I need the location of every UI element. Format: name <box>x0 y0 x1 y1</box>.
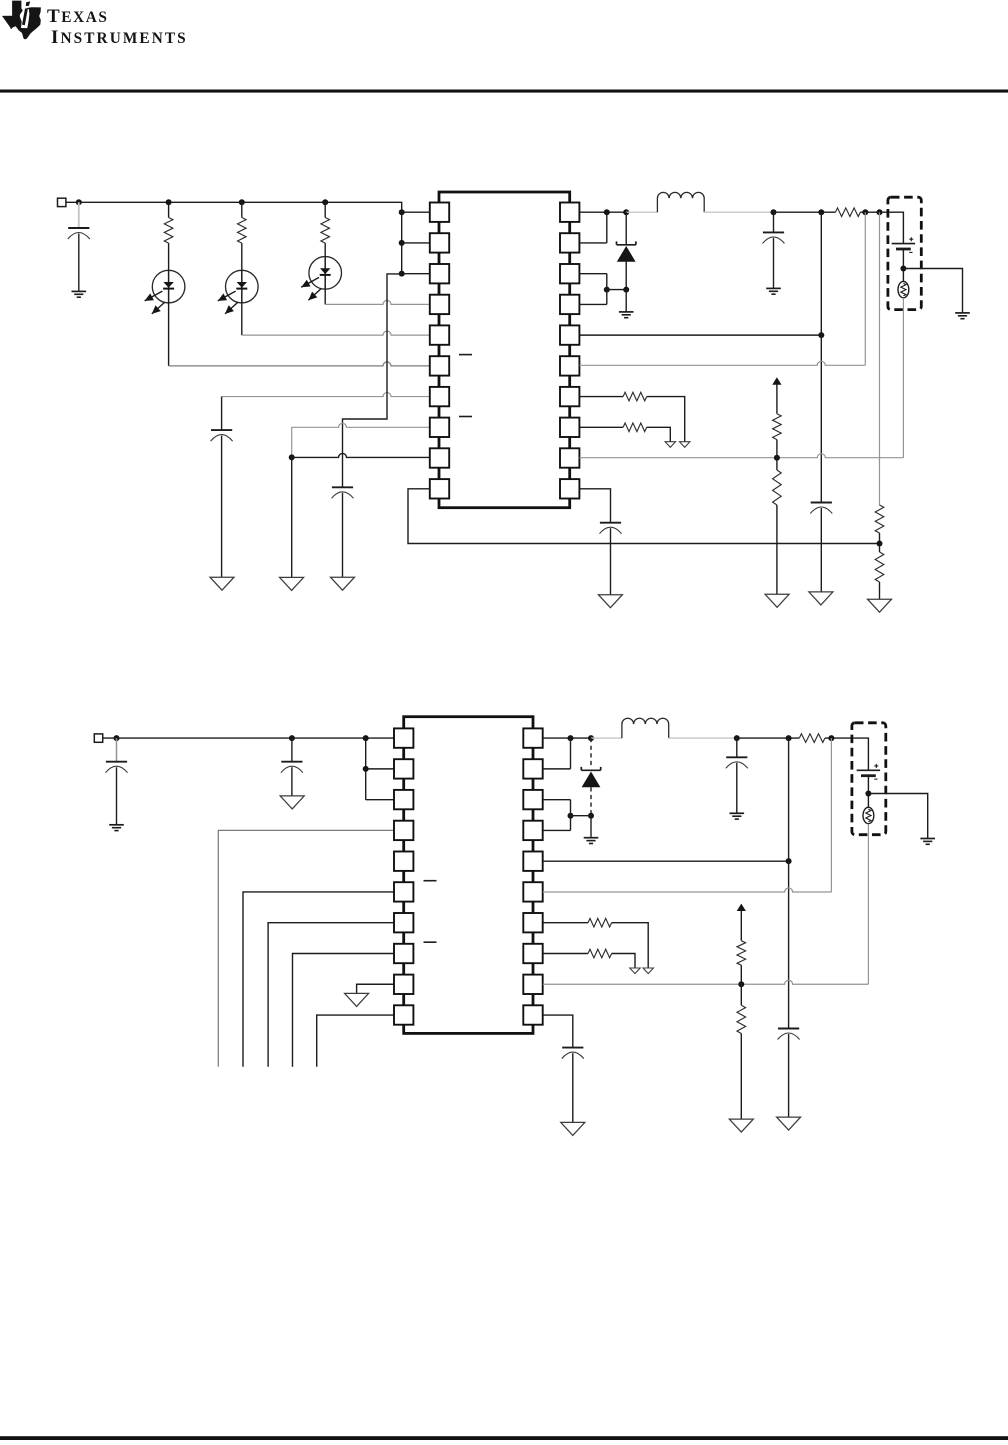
ground arrow pins 8-9 <box>280 577 304 590</box>
resistor R6 <box>623 423 647 432</box>
resistor R9 pull-down <box>773 470 782 505</box>
capacitor C3 <box>211 429 232 431</box>
supply arrow TS pull-up (U2) <box>737 904 746 911</box>
junction OUT / C5 <box>771 209 777 215</box>
wire C12 to ground <box>572 1053 574 1122</box>
resistor R10 FB top <box>875 505 884 533</box>
capacitor C11 <box>778 1028 799 1030</box>
wire node to pin 9 <box>292 453 430 457</box>
ground battery (U2) <box>920 838 935 840</box>
wire LED D2 to pin 5 <box>242 331 430 335</box>
junction VIN / C1 <box>76 199 82 205</box>
junction VIN / R2 <box>239 199 245 205</box>
capacitor C6 <box>811 502 832 504</box>
wire OUT to R10 <box>879 212 881 505</box>
capacitor C10 output <box>726 756 747 758</box>
junction sense / C11 (U2) <box>786 858 792 864</box>
battery cell BT1 <box>892 243 915 245</box>
junction bus pin1 <box>399 209 405 215</box>
wire arrow to R8 <box>776 385 778 414</box>
ground C5 <box>766 287 781 289</box>
wire bus to pin 1 <box>402 211 430 213</box>
ground battery <box>955 312 970 314</box>
ground arrow pin 9 (U2) <box>345 993 369 1006</box>
junction OUT / C10 (U2) <box>734 735 740 741</box>
ground arrow C3 <box>210 577 234 590</box>
wire VIN to C1 <box>78 202 80 228</box>
ground arrow C6 <box>809 592 833 605</box>
resistor R2 <box>238 218 247 244</box>
wire sense to battery <box>860 212 903 243</box>
resistor R15 pull-up <box>737 941 746 966</box>
wire VIN to C8 <box>116 738 118 761</box>
wire pins 18-17 to D5 anode <box>543 800 571 831</box>
ground arrow C4 <box>331 577 355 590</box>
wire R14 to ground arrow <box>612 953 635 968</box>
wire D5 anode to ground <box>590 816 592 838</box>
IC U2 right pins 11-20 <box>523 728 542 747</box>
junction sense / pin 15 <box>862 209 868 215</box>
wire OUT rail <box>774 211 836 213</box>
wire OUT rail (U2) <box>737 737 800 739</box>
wire C8 to ground <box>116 767 118 824</box>
ground C1 <box>72 290 87 292</box>
wire bus to pin 3 <box>402 273 430 275</box>
wire sense to battery (U2) <box>825 738 869 770</box>
wire pin 15 vertical (U2) <box>830 738 832 892</box>
wire R3 to LED D3 <box>324 243 326 257</box>
wire L2 to C10 <box>669 737 737 739</box>
IC U2 body (bottom circuit) <box>404 717 533 1034</box>
junction SW / D5 (U2) <box>588 735 594 741</box>
IC U2 left pins 1-10 <box>394 728 413 747</box>
ground arrow R13 <box>643 968 653 974</box>
IC U1 right pins 11-20 <box>560 203 579 222</box>
wire pin 16 sense <box>579 334 821 336</box>
wire sense vertical to C6 <box>820 335 822 502</box>
input terminal VIN (bottom circuit) <box>94 734 102 742</box>
junction D5 anode (U2) <box>588 813 594 819</box>
wire pin 6 stub (U2) <box>243 892 394 1067</box>
wire pin 12 TS line <box>579 454 903 458</box>
wire D5 anode dashed <box>590 787 592 815</box>
ground C10 <box>730 812 745 814</box>
wire pin 14 (U2) <box>543 922 588 924</box>
wire pin 11 to C12 <box>543 1015 573 1047</box>
capacitor C8 input <box>106 761 127 763</box>
junction D4 anode <box>623 287 629 293</box>
junction D5 / pin 18 (U2) <box>568 813 574 819</box>
resistor R16 pull-down <box>737 1005 746 1033</box>
wire pin 11 to C7 <box>579 489 610 523</box>
wire battery negative to ground <box>903 269 962 313</box>
junction VIN / R3 <box>322 199 328 205</box>
resistor R5 <box>623 392 647 401</box>
junction sense / C6 <box>818 332 824 338</box>
IC U2 pin 6 overbar <box>424 880 437 882</box>
battery pack dashed box (U2) <box>852 723 886 835</box>
IC U1 pin 6 overbar <box>459 354 472 356</box>
IC U1 pin 8 overbar <box>459 416 472 418</box>
wire pin 8 to node <box>292 423 430 457</box>
wire bus to pin 1 (U2) <box>366 737 394 739</box>
junction battery negative (U2) <box>865 791 871 797</box>
wire VIN to R2 <box>241 202 243 217</box>
wire R11 to ground <box>879 582 881 599</box>
wire D5 anode link <box>571 815 592 817</box>
junction TS divider <box>774 455 780 461</box>
junction D4 / pin 18 <box>604 287 610 293</box>
wire R15 to R16 <box>740 965 742 1005</box>
wire node to ground <box>291 457 293 577</box>
wire pin 8 stub (U2) <box>293 953 394 1066</box>
wire sense vertical to C11 <box>788 861 790 1028</box>
resistor R4 sense <box>835 208 860 217</box>
resistor R14 <box>588 949 612 958</box>
LED D1 <box>152 270 185 303</box>
wire C9 to ground arrow <box>291 767 293 796</box>
ground arrow TS divider <box>765 594 789 607</box>
resistor R3 <box>321 218 330 244</box>
junction sense / pin 15 (U2) <box>828 735 834 741</box>
junction pins 8-9 <box>289 454 295 460</box>
IC U1 left pins 1-10 <box>430 203 449 222</box>
wire C3 top <box>221 397 223 430</box>
LED D2 <box>226 270 259 303</box>
capacitor C7 <box>600 522 621 524</box>
wire R13 to ground arrow <box>612 923 649 968</box>
wire C10 to ground <box>736 763 738 813</box>
wire pin 7 to C3 <box>222 393 430 397</box>
wire VIN rail bottom circuit <box>103 738 366 800</box>
input terminal VIN (top circuit) <box>58 198 66 206</box>
wire SW to pin 19 vertical (U2) <box>570 738 572 769</box>
wire LED D2 cathode <box>241 303 243 335</box>
wire pin 20 SW <box>579 211 626 213</box>
wire C5 to ground <box>773 238 775 288</box>
wire bus to pin 3 (U2) <box>366 799 394 801</box>
junction SW / D4 <box>623 209 629 215</box>
wire sense vertical upper <box>820 212 822 335</box>
wire pin 14 <box>579 396 623 398</box>
capacitor C1 input <box>68 227 89 229</box>
wire FB node <box>879 533 881 552</box>
wire battery to thermistor <box>902 249 904 281</box>
wire pin 13 <box>579 426 623 428</box>
junction SW / pin 19 <box>604 209 610 215</box>
wire SW to L1 <box>626 211 657 213</box>
wire D4 anode link <box>607 289 626 291</box>
thermistor RT1 <box>898 281 909 297</box>
wire OUT to C5 <box>773 212 775 232</box>
IC U2 pin 8 overbar <box>424 941 437 943</box>
ground arrow C11 <box>777 1117 801 1130</box>
wire C4 to ground <box>342 493 344 577</box>
wire pin 15 to OUT sense (U2) <box>543 888 832 892</box>
ground D4 <box>619 311 634 313</box>
junction bus pin3 <box>399 271 405 277</box>
ground D5 <box>584 837 599 839</box>
capacitor C5 output <box>763 231 784 233</box>
capacitor C9 <box>281 761 302 763</box>
wire C1 to ground <box>78 234 80 292</box>
wire pin 7 stub (U2) <box>268 923 394 1067</box>
IC U1 body (top circuit) <box>439 192 570 508</box>
wire LED D1 to pin 6 <box>169 362 430 366</box>
wire pin 12 TS line (U2) <box>543 980 869 984</box>
wire pin 4 stub (U2) <box>218 830 394 1066</box>
ground C8 <box>109 824 124 826</box>
ground arrow C7 <box>598 595 622 608</box>
battery pack dashed box <box>888 197 921 309</box>
wire thermistor to TS line <box>902 298 904 458</box>
junction bus pin2 <box>399 240 405 246</box>
junction sense / R7 divider <box>877 209 883 215</box>
header rule <box>0 90 1008 93</box>
wire R2 to LED D2 <box>241 243 243 270</box>
wire C3 to ground <box>221 436 223 578</box>
wire C11 to ground <box>788 1034 790 1117</box>
junction TS divider (U2) <box>738 981 744 987</box>
wire R9 to ground <box>776 505 778 594</box>
wire SW to pin 19 vertical <box>606 212 608 243</box>
wire thermistor to TS line (U2) <box>867 824 869 985</box>
ground arrow C12 <box>561 1122 585 1135</box>
wire pin 19 (U2) <box>543 768 571 770</box>
junction OUT / sense (U2) <box>786 735 792 741</box>
capacitor C4 <box>332 486 353 488</box>
wire VIN to R1 <box>168 202 170 217</box>
wire R1 to LED D1 <box>168 243 170 270</box>
diode D5 <box>581 767 600 770</box>
ground arrow TS divider (U2) <box>729 1119 753 1132</box>
wire pin 10 stub (U2) <box>317 1015 394 1067</box>
wire L1 to C5 <box>704 211 773 213</box>
wire R5 to ground arrow <box>647 397 685 442</box>
junction SW / pin 19 (U2) <box>568 735 574 741</box>
wire R6 to ground arrow <box>647 427 671 441</box>
wire R8 to R9 <box>776 440 778 470</box>
resistor R1 <box>164 218 173 244</box>
wire pin 13 (U2) <box>543 952 588 954</box>
wire pin 15 to OUT sense <box>579 361 865 365</box>
wire battery to thermistor (U2) <box>867 776 869 808</box>
junction VIN / R1 <box>166 199 172 205</box>
diode D4 <box>617 241 636 244</box>
wire C7 to ground <box>610 528 612 595</box>
supply arrow TS pull-up <box>772 377 781 384</box>
ground arrow FB divider <box>868 599 892 612</box>
TI logo Texas-map bug <box>2 1 41 40</box>
thermistor RT2 <box>863 807 874 823</box>
svg-text:TEXAS: TEXAS <box>47 6 109 27</box>
wire LED D3 to pin 4 <box>325 300 430 304</box>
junction FB node <box>877 541 883 547</box>
wire SW to D5 cathode dashed <box>590 738 592 766</box>
junction bus pin2 (U2) <box>363 766 369 772</box>
wire SW to L2 <box>591 737 622 739</box>
ground arrow R6 <box>665 442 675 448</box>
wire pins 18-17 to D4 anode <box>579 274 606 305</box>
junction battery negative <box>900 266 906 272</box>
wire LED D3 cathode <box>324 289 326 304</box>
junction OUT / sense <box>818 209 824 215</box>
wire VIN rail to VCC bus <box>66 202 402 274</box>
wire bus to pin 2 (U2) <box>366 768 394 770</box>
svg-text:INSTRUMENTS: INSTRUMENTS <box>51 27 188 48</box>
junction VIN / C8 <box>114 735 120 741</box>
resistor R8 pull-up <box>773 414 782 440</box>
wire bus to pin 2 <box>402 242 430 244</box>
wire VIN to R3 <box>324 202 326 217</box>
resistor R12 sense <box>799 734 825 743</box>
battery cell BT2 <box>857 769 880 771</box>
wire OUT to C10 <box>736 738 738 757</box>
wire R16 to ground <box>740 1034 742 1120</box>
wire pin 15 vertical <box>864 212 866 365</box>
wire C6 to ground <box>820 508 822 592</box>
inductor L2 <box>622 718 669 738</box>
wire arrow to R15 <box>740 911 742 941</box>
wire sense vertical upper (U2) <box>788 738 790 861</box>
footer rule <box>0 1436 1008 1440</box>
wire pin 10 FB line <box>408 489 880 544</box>
wire pin 20 SW (U2) <box>543 737 591 739</box>
ground arrow C9 <box>280 796 304 809</box>
wire SW to D4 cathode <box>625 212 627 245</box>
wire LED D1 cathode <box>168 303 170 366</box>
capacitor C12 <box>562 1047 583 1049</box>
wire D4 anode <box>625 262 627 290</box>
wire pin 19 <box>579 242 606 244</box>
resistor R11 FB bottom <box>875 552 884 582</box>
inductor L1 <box>657 192 704 212</box>
resistor R13 <box>588 918 612 927</box>
wire pin3 node to C4 <box>343 274 402 487</box>
ground arrow R14 <box>630 968 640 974</box>
junction bus pin1 (U2) <box>363 735 369 741</box>
wire D4 anode to ground <box>625 290 627 312</box>
LED D3 <box>309 257 342 290</box>
wire VIN to C9 <box>291 738 293 761</box>
wire pin 16 sense (U2) <box>543 860 789 862</box>
junction VIN / C9 <box>289 735 295 741</box>
ground arrow R5 <box>680 442 690 448</box>
wire battery negative to ground (U2) <box>868 794 927 839</box>
wire pin 9 to ground (U2) <box>357 984 394 993</box>
